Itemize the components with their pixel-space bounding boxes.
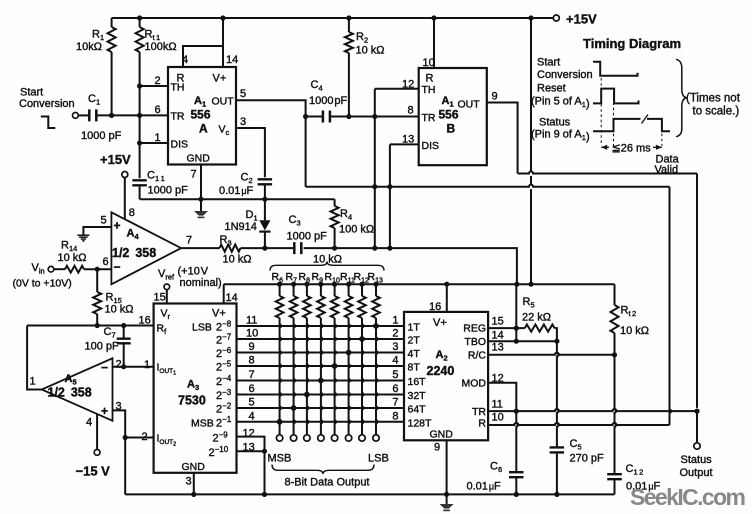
resistor R10 [334,284,336,296]
svg-text:8: 8 [129,207,135,219]
wire TH12 vertical node [374,89,376,248]
wire A1b pin9 OUT [487,103,518,174]
svg-text:−: − [114,260,121,274]
svg-text:7530: 7530 [178,394,206,408]
resistor R6 [279,284,281,296]
svg-text:8: 8 [408,105,414,117]
svg-text:13: 13 [402,134,414,146]
svg-text:3: 3 [392,341,398,353]
svg-text:B: B [447,122,456,136]
resistor R3 [181,247,219,249]
wire A1b pin12 TH [375,88,419,90]
ground at A4 pin5 [83,227,111,235]
svg-text:+15V: +15V [566,12,597,27]
svg-text:4: 4 [86,417,92,429]
svg-text:Reset: Reset [537,83,566,95]
svg-text:DIS: DIS [171,139,189,151]
wire A4 output line [241,247,294,249]
svg-text:8-Bit Data Output: 8-Bit Data Output [285,477,370,489]
svg-text:GND: GND [430,429,454,441]
wire +15V top rail [112,17,554,19]
svg-text:≦26 ms: ≦26 ms [612,143,652,155]
wire 8 bit lines A3 to A2 [237,325,405,327]
svg-text:LSB: LSB [368,453,389,465]
svg-text:10: 10 [492,412,504,424]
wire OUT-B horizontal bus [518,171,697,173]
svg-text:Start: Start [20,87,43,99]
svg-text:TH: TH [422,84,436,96]
svg-text:MSB: MSB [191,418,214,430]
capacitor C6 [516,411,518,471]
svg-text:Start: Start [537,57,560,69]
svg-text:270 pF: 270 pF [570,453,605,465]
timing right brace [676,59,688,136]
svg-text:556: 556 [191,108,211,122]
wire A5 plus input IOUT2 [113,410,126,437]
svg-text:TBO: TBO [464,336,486,348]
svg-text:10: 10 [246,328,258,340]
svg-text:13: 13 [492,342,504,354]
svg-text:R: R [426,73,434,85]
svg-text:4: 4 [249,410,255,422]
svg-text:556: 556 [439,108,459,122]
wire OUT-A horizontal bus [306,185,670,187]
svg-text:6: 6 [249,383,255,395]
wire A2 pin10 R [488,423,669,425]
resistor R13 [375,284,377,296]
capacitor C11 [132,180,147,185]
svg-text:5: 5 [240,88,246,100]
svg-text:+: + [101,404,108,418]
svg-text:Conversion: Conversion [19,98,75,110]
wire A1a pin5 OUT to node [236,100,306,186]
svg-text:OUT: OUT [458,99,481,111]
wire DIS13 vertical node [389,144,391,248]
capacitor C2 [258,179,273,184]
svg-text:6: 6 [392,383,398,395]
svg-text:to scale.): to scale.) [693,106,740,118]
svg-text:7: 7 [191,169,197,181]
node Status Output [696,411,698,443]
capacitor C3 [294,242,301,254]
wire A2 pin11 TR [488,409,697,411]
svg-text:4T: 4T [408,348,421,360]
wire A1a pin1 DIS [140,142,168,144]
wire A3 pin14 V+ [223,284,225,303]
wire A2 pin13 R/C [488,353,614,355]
svg-text:Conversion: Conversion [537,69,593,81]
svg-text:Timing Diagram: Timing Diagram [583,36,681,51]
svg-text:SeekIC.com: SeekIC.com [630,484,746,510]
svg-text:2: 2 [116,359,122,371]
resistor R14 [54,268,65,270]
svg-text:+: + [114,219,121,233]
diode D1 1N914 [264,199,266,220]
svg-text:128T: 128T [408,417,433,429]
wire A2 pin12 MOD [488,383,516,411]
svg-text:Valid: Valid [655,164,679,176]
capacitor C5 [557,341,559,446]
resistor Rt1 [136,27,144,52]
svg-text:6: 6 [155,104,161,116]
svg-text:2: 2 [142,431,148,443]
op IC A1 556 B box [419,68,487,165]
wire A1a pin7 GND [200,165,202,200]
svg-text:10: 10 [423,57,435,69]
svg-text:1000 pF: 1000 pF [81,130,122,142]
counter A2 2240 box [404,312,488,440]
resistor R2 [348,18,350,32]
svg-text:10 kΩ: 10 kΩ [356,45,385,57]
svg-text:(0V to +10V): (0V to +10V) [13,278,72,290]
svg-text:5: 5 [249,397,255,409]
resistor R12 [361,284,363,296]
svg-text:nominal): nominal) [180,277,222,289]
svg-text:1: 1 [30,376,36,388]
svg-text:16: 16 [429,301,441,313]
svg-text:REG: REG [463,323,486,335]
svg-text:GND: GND [182,461,206,473]
svg-text:V+: V+ [213,73,227,85]
svg-text:MSB: MSB [268,453,292,465]
wire +15V vertical feed [530,18,532,171]
node +15V terminal [553,15,559,21]
svg-text:12: 12 [243,428,255,440]
svg-text:0.01 μF: 0.01 μF [467,481,502,493]
svg-text:R: R [478,418,486,430]
svg-text:7: 7 [249,369,255,381]
wire A1a pin4 reset [183,46,223,67]
svg-text:TR: TR [422,112,436,124]
svg-text:12: 12 [402,79,414,91]
wire A2 pin16 V+ [446,284,448,312]
DAC A3 7530 box [154,304,237,473]
resistor R5 [525,325,555,332]
wire ground rail [140,198,335,200]
svg-text:15: 15 [492,316,504,328]
svg-text:5: 5 [392,369,398,381]
svg-text:Output: Output [680,467,713,479]
svg-text:32T: 32T [408,390,427,402]
svg-text:15: 15 [154,292,166,304]
svg-text:(+10 V: (+10 V [178,266,209,278]
capacitor C1 [78,114,89,116]
svg-text:OUT: OUT [212,96,235,108]
svg-text:100kΩ: 100kΩ [145,41,177,53]
svg-text:Status: Status [681,454,713,466]
timing waveform reset [593,89,639,104]
svg-text:2: 2 [155,75,161,87]
capacitor C12 [615,355,617,474]
svg-text:0.01 μF: 0.01 μF [219,185,254,197]
svg-text:7: 7 [186,235,192,247]
wire A3 pin3 GND [193,473,195,495]
resistor R8 [306,284,308,296]
svg-text:3: 3 [186,476,192,488]
svg-text:8: 8 [392,410,398,422]
svg-text:5: 5 [101,215,107,227]
svg-text:100 kΩ: 100 kΩ [339,224,374,236]
svg-text:10kΩ: 10kΩ [76,41,102,53]
svg-text:10 kΩ: 10 kΩ [58,252,87,264]
svg-text:R/C: R/C [468,350,487,362]
resistor R9 [320,284,322,296]
wire A3 pins12-13 to ground [237,437,265,452]
svg-text:1000 pF: 1000 pF [148,185,189,197]
svg-text:4: 4 [182,54,188,66]
svg-text:A: A [199,122,208,136]
svg-text:4: 4 [392,355,398,367]
op-amp A5 1/2 358 [42,358,113,421]
svg-text:11: 11 [492,399,503,411]
svg-text:22 kΩ: 22 kΩ [522,312,551,324]
svg-text:64T: 64T [408,404,427,416]
svg-text:MOD: MOD [462,378,487,390]
svg-text:1/2 358: 1/2 358 [48,386,92,400]
svg-text:1000 pF: 1000 pF [287,231,328,243]
svg-text:Status: Status [539,117,571,129]
svg-text:TR: TR [472,406,486,418]
node -15V supply A5 pin4 [96,414,98,450]
op-amp A4 1/2 358 [111,212,181,284]
svg-text:+15V: +15V [100,152,131,167]
R-bank overbrace [270,262,384,271]
wire A1b pin13 DIS [390,143,419,145]
svg-text:14: 14 [226,292,238,304]
svg-text:6: 6 [103,256,109,268]
svg-text:2240: 2240 [427,364,455,378]
wire A1b pin10 R [433,18,435,68]
svg-text:1: 1 [392,315,398,327]
svg-text:1: 1 [155,132,161,144]
capacitor C4 [306,116,323,118]
svg-text:TR: TR [171,111,185,123]
svg-text:10 kΩ: 10 kΩ [620,325,649,337]
svg-text:8: 8 [249,355,255,367]
timing waveform status [593,119,641,131]
svg-text:V+: V+ [433,317,447,329]
wire A2 pin9 GND [446,440,448,494]
svg-text:V+: V+ [212,308,226,320]
wire REG-TBO to rail [515,284,517,341]
svg-text:1T: 1T [408,322,421,334]
svg-text:10 kΩ: 10 kΩ [105,304,134,316]
wire Rf feedback line [27,325,154,327]
capacitor C7 [123,326,125,338]
svg-text:DIS: DIS [422,140,440,152]
timing dashed guides [601,78,662,146]
resistor R1 [111,18,113,27]
svg-text:2T: 2T [408,335,421,347]
resistor R4 [334,199,336,206]
8-bit output underbrace [272,465,374,475]
svg-text:8T: 8T [408,362,421,374]
svg-text:1000 pF: 1000 pF [309,95,348,107]
svg-text:11: 11 [246,315,257,327]
wire V+ rail [224,283,615,285]
svg-text:GND: GND [187,153,211,165]
wire A2 pin15 REG [488,327,525,329]
svg-text:1N914: 1N914 [225,221,257,233]
svg-text:16: 16 [139,315,151,327]
svg-text:14: 14 [226,54,238,66]
wire A5 minus input IOUT1 [113,366,154,368]
svg-text:16T: 16T [408,376,427,388]
svg-text:TH: TH [171,82,185,94]
op IC A1 556 A box [168,67,236,165]
resistor Rt2 [614,284,616,305]
svg-text:−15 V: −15 V [76,464,111,479]
svg-text:3: 3 [240,116,246,128]
wire A1a pin14 V+ [222,18,224,67]
resistor R15 [96,269,98,292]
timing arrows 26ms [601,146,609,148]
svg-text:14: 14 [492,330,504,342]
wire A1a pin3 Vc [236,128,265,177]
svg-text:7: 7 [392,397,398,409]
svg-text:9: 9 [492,91,498,103]
svg-text:2: 2 [392,328,398,340]
wire bottom ground rail [125,493,614,495]
svg-text:9: 9 [249,341,255,353]
timing waveform start conversion [593,62,638,76]
svg-text:1/2 358: 1/2 358 [112,246,156,260]
svg-text:(Times not: (Times not [686,93,741,105]
ground under A2 pin9 [446,494,448,504]
svg-text:9: 9 [434,442,440,454]
svg-text:10 kΩ: 10 kΩ [223,254,252,266]
svg-text:100 pF: 100 pF [85,341,120,353]
wire A2 pin14 TBO [488,340,557,342]
resistor R11 [348,284,350,296]
svg-text:LSB: LSB [192,322,212,334]
svg-text:1: 1 [144,359,150,371]
wire A1a pin2 TH [140,85,168,87]
svg-text:−: − [101,361,108,375]
ground under A1a pin7 [200,199,202,211]
resistor R7 [293,284,295,296]
